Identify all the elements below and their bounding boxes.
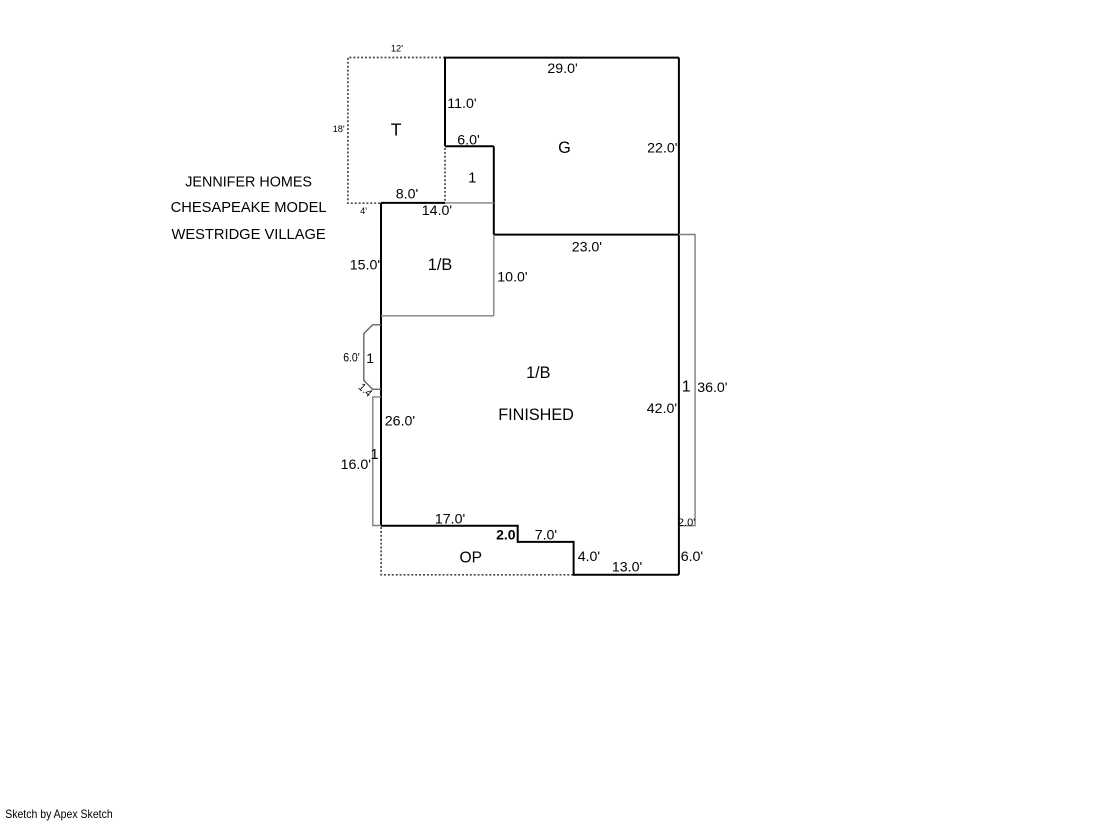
svg-text:1/B: 1/B bbox=[428, 256, 452, 274]
svg-text:1: 1 bbox=[366, 350, 374, 366]
svg-text:7.0': 7.0' bbox=[535, 527, 557, 543]
svg-text:42.0': 42.0' bbox=[647, 401, 677, 417]
svg-text:10.0': 10.0' bbox=[497, 270, 527, 286]
T porch dashed outline bbox=[348, 58, 574, 575]
svg-text:6.0': 6.0' bbox=[343, 351, 360, 365]
svg-text:16.0': 16.0' bbox=[341, 457, 371, 473]
svg-text:26.0': 26.0' bbox=[385, 414, 415, 430]
svg-text:14.0': 14.0' bbox=[422, 203, 452, 219]
left measure bracket 16.0' bbox=[373, 397, 381, 526]
svg-text:4': 4' bbox=[360, 206, 367, 216]
svg-text:1: 1 bbox=[468, 170, 476, 186]
svg-text:WESTRIDGE VILLAGE: WESTRIDGE VILLAGE bbox=[171, 227, 325, 243]
svg-text:1/B: 1/B bbox=[526, 364, 550, 382]
svg-text:18': 18' bbox=[333, 124, 345, 134]
wall 23.0' garage bottom bbox=[494, 234, 679, 236]
svg-text:G: G bbox=[558, 139, 571, 157]
svg-text:OP: OP bbox=[460, 550, 483, 567]
T right dashed segment bbox=[444, 148, 446, 203]
left wall bbox=[380, 203, 382, 526]
svg-text:T: T bbox=[391, 120, 402, 140]
upper 1/B bottom divider bbox=[381, 315, 494, 317]
svg-text:CHESAPEAKE MODEL: CHESAPEAKE MODEL bbox=[171, 200, 327, 216]
svg-text:22.0': 22.0' bbox=[647, 140, 677, 156]
svg-text:2.0': 2.0' bbox=[678, 517, 695, 529]
interior gray dividers bbox=[373, 203, 695, 526]
bottom walls 17.0' 2.0 7.0' 4.0' 13.0' bbox=[381, 526, 679, 575]
svg-text:23.0': 23.0' bbox=[572, 239, 602, 255]
upper 1/B right divider 10.0' bbox=[493, 235, 495, 316]
svg-text:4.0': 4.0' bbox=[578, 549, 600, 565]
svg-text:17.0': 17.0' bbox=[435, 512, 465, 528]
svg-text:Sketch by Apex Sketch: Sketch by Apex Sketch bbox=[5, 807, 113, 821]
right measure bracket 36.0' bbox=[679, 235, 695, 526]
svg-text:15.0': 15.0' bbox=[350, 257, 380, 273]
svg-text:JENNIFER HOMES: JENNIFER HOMES bbox=[185, 175, 312, 191]
svg-text:11.0': 11.0' bbox=[447, 96, 476, 112]
svg-text:13.0': 13.0' bbox=[612, 559, 642, 575]
svg-text:2.0: 2.0 bbox=[496, 526, 516, 542]
svg-text:1: 1 bbox=[682, 378, 691, 395]
wall 8.0' bbox=[381, 202, 445, 204]
svg-text:8.0': 8.0' bbox=[396, 187, 418, 203]
svg-text:12': 12' bbox=[391, 44, 403, 54]
OP dashed outline bbox=[381, 527, 573, 575]
bay window outline bbox=[364, 325, 381, 390]
svg-text:6.0': 6.0' bbox=[457, 133, 479, 149]
area 1 bottom divider bbox=[445, 202, 494, 204]
garage G outline bbox=[381, 58, 679, 575]
svg-text:6.0': 6.0' bbox=[681, 549, 703, 565]
wall 6.0' bbox=[445, 145, 494, 147]
svg-text:29.0': 29.0' bbox=[547, 61, 577, 77]
svg-text:FINISHED: FINISHED bbox=[498, 406, 574, 424]
svg-text:36.0': 36.0' bbox=[697, 380, 727, 396]
svg-text:1: 1 bbox=[371, 447, 379, 463]
right wall 42.0' bbox=[678, 58, 680, 575]
area 1 right wall bbox=[493, 146, 495, 234]
